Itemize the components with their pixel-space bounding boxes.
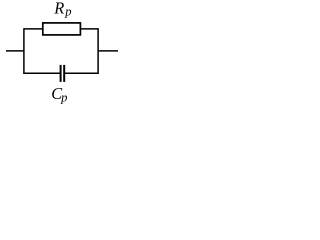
svg-text:p: p: [64, 4, 71, 18]
svg-text:R: R: [53, 0, 64, 17]
svg-text:p: p: [60, 90, 67, 104]
